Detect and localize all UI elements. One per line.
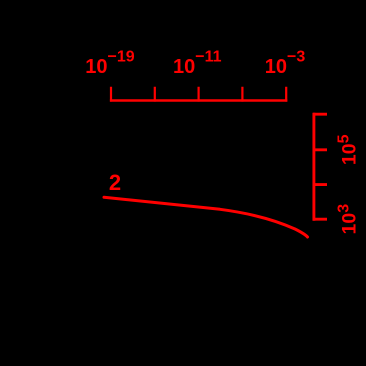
svg-text:10−19: 10−19: [85, 49, 134, 79]
top axis line: [110, 99, 287, 101]
svg-text:10−3: 10−3: [265, 49, 306, 79]
right axis ticks: [313, 114, 327, 219]
right axis line: [312, 113, 315, 221]
curve: [104, 197, 308, 237]
svg-text:2: 2: [109, 170, 121, 195]
svg-text:103: 103: [336, 204, 361, 235]
svg-text:10−11: 10−11: [173, 49, 222, 79]
svg-text:105: 105: [336, 134, 361, 165]
top axis ticks: [111, 87, 286, 102]
